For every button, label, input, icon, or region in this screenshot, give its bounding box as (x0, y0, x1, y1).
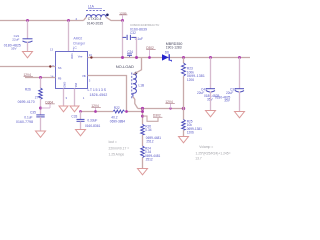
svg-text:1206: 1206 (187, 78, 194, 82)
L1A phase dot (106, 14, 109, 17)
svg-text:CTX10-4: CTX10-4 (88, 17, 102, 21)
wire C21 drop (27, 21, 29, 39)
capacitor C40 branch (209, 56, 212, 59)
ground under C33 (76, 130, 86, 136)
svg-text:1901-1283: 1901-1283 (166, 46, 182, 50)
svg-text:2512: 2512 (146, 157, 153, 161)
svg-text:Iout =: Iout = (109, 140, 117, 144)
wire 12SB down (122, 21, 124, 58)
wire L1A left lead (84, 17, 87, 20)
svg-text:1826-4562: 1826-4562 (90, 93, 108, 97)
svg-text:GND: GND (63, 82, 67, 88)
svg-text:13.7: 13.7 (195, 157, 202, 161)
wire R25 to ground (183, 130, 185, 136)
svg-text:L1B: L1B (139, 84, 145, 88)
wire C21 to ground (27, 42, 29, 52)
svg-text:220mV/0.17 =: 220mV/0.17 = (109, 146, 130, 150)
resistor R23 (182, 56, 185, 59)
wire R20 to R24 (142, 135, 144, 146)
wire C35 to ground (40, 117, 42, 131)
junction R26 tap (39, 76, 42, 79)
svg-text:LT1513S: LT1513S (88, 88, 107, 92)
wire VDD drop to IC (68, 21, 70, 52)
ground under C35 (36, 131, 46, 137)
ground under R25 (179, 137, 189, 143)
wire R23 to node (183, 76, 185, 119)
svg-text:R22: R22 (114, 106, 120, 110)
wire B C33 row (81, 111, 114, 113)
svg-text:35V: 35V (224, 98, 231, 102)
svg-text:22uF: 22uF (12, 37, 19, 41)
svg-text:Vclamp =: Vclamp = (199, 145, 213, 149)
svg-text:Vfb: Vfb (82, 74, 87, 78)
wire GND pin stub (63, 89, 65, 107)
wire FB from label (25, 77, 56, 79)
svg-text:C32: C32 (130, 31, 136, 35)
svg-text:Vee: Vee (78, 55, 83, 59)
svg-text:C0603C104K5RACTU: C0603C104K5RACTU (130, 23, 159, 27)
inductor L1A core (86, 10, 106, 12)
svg-text:0699-4170: 0699-4170 (18, 100, 35, 104)
junction C21 tap (26, 19, 29, 22)
svg-text:Charger: Charger (73, 41, 86, 45)
svg-text:FB: FB (58, 77, 62, 81)
ground under TAB pin (70, 106, 79, 112)
op-amp IC U1 LT1513 (56, 52, 88, 89)
wire top VIN rail (0, 20, 84, 22)
capacitor C38 branch (238, 56, 241, 59)
svg-text:C24: C24 (127, 50, 133, 54)
svg-text:D6: D6 (165, 50, 169, 54)
ground under C40 (206, 111, 216, 117)
L1B phase dot (135, 72, 138, 75)
svg-text:22uF: 22uF (226, 91, 233, 95)
wire L1B top lead (134, 58, 142, 75)
ground under C21 (23, 52, 33, 58)
wire C output row (138, 108, 184, 110)
wire TAB pin stub (74, 89, 76, 107)
svg-text:SS: SS (58, 66, 62, 70)
wire C32 right leg down (136, 37, 138, 57)
wire to R26 (40, 78, 42, 89)
svg-text:1.25*(R25/R24)+1.245=: 1.25*(R25/R24)+1.245= (196, 151, 231, 155)
svg-text:0.33uF: 0.33uF (87, 118, 97, 122)
svg-text:1206: 1206 (187, 131, 194, 135)
node D302 stub (143, 116, 159, 121)
capacitor C32 (123, 35, 137, 40)
wire R24 to ground (142, 158, 144, 169)
inductor L1B winding (133, 74, 137, 96)
svg-text:C33: C33 (71, 114, 77, 118)
wire R20 column (142, 109, 144, 125)
junction 12SB (121, 19, 124, 22)
wire L1A to 12SB node (106, 17, 122, 20)
junction D304 tap (39, 107, 42, 110)
svg-text:0160-8361: 0160-8361 (85, 124, 100, 128)
svg-text:274: 274 (35, 95, 41, 99)
svg-text:1.25 Amps: 1.25 Amps (109, 152, 125, 156)
junction VDD tap (67, 19, 70, 22)
svg-text:R26: R26 (25, 87, 31, 91)
svg-text:NO-LOAD: NO-LOAD (116, 64, 134, 69)
svg-text:TAB: TAB (74, 83, 78, 88)
svg-text:L1A: L1A (88, 5, 95, 9)
svg-text:0699-3884: 0699-3884 (110, 119, 125, 123)
svg-text:9140-2035: 9140-2035 (87, 22, 103, 26)
node D304 stub (41, 107, 51, 109)
wire main output rail (88, 57, 251, 59)
wire R26 down (40, 99, 42, 115)
svg-text:0160-7798: 0160-7798 (16, 120, 33, 124)
resistor R24 (141, 146, 145, 158)
svg-text:IC: IC (73, 46, 77, 50)
svg-text:AM02: AM02 (73, 37, 82, 41)
resistor R25 (182, 120, 186, 131)
svg-text:2512: 2512 (146, 139, 153, 143)
inductor L1A winding (86, 15, 106, 18)
svg-text:16: 16 (89, 53, 93, 57)
svg-text:C35: C35 (30, 111, 36, 115)
resistor R20 (141, 124, 145, 135)
capacitor C21 (23, 39, 33, 43)
wire Vfb to wire B (88, 76, 127, 112)
ground under R24 (138, 169, 148, 175)
wire SS from left (0, 66, 56, 68)
svg-text:0.34: 0.34 (145, 128, 151, 132)
ground under C38 (235, 112, 245, 118)
svg-text:VDD: VDD (70, 53, 74, 59)
svg-text:35V: 35V (11, 47, 17, 51)
wire L1B bottom lead (133, 97, 138, 109)
svg-text:0.1uF: 0.1uF (24, 115, 32, 119)
svg-text:13: 13 (50, 48, 54, 52)
transformer L1B core (131, 73, 133, 99)
ground under GND pin (59, 106, 68, 112)
